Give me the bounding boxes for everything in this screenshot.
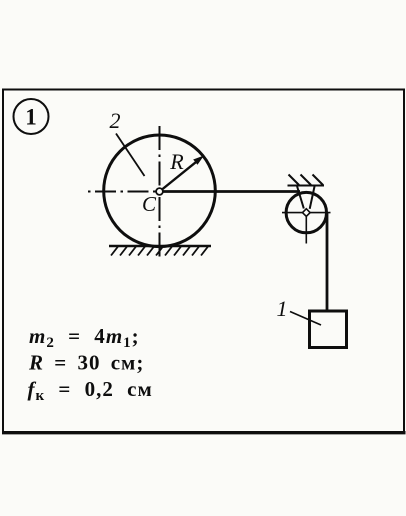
svg-text:fк = 0,2 см: fк = 0,2 см bbox=[28, 377, 153, 404]
svg-text:R: R bbox=[169, 149, 184, 174]
wheel (disk 2) bbox=[104, 135, 216, 247]
svg-text:1: 1 bbox=[277, 296, 288, 321]
ground line bbox=[109, 245, 211, 247]
load block 1 bbox=[310, 311, 347, 348]
svg-text:2: 2 bbox=[110, 108, 121, 133]
ground hatching bbox=[111, 247, 208, 256]
label 2 leader line bbox=[116, 134, 145, 177]
svg-text:C: C bbox=[142, 192, 157, 216]
pulley crosshair vertical bbox=[305, 214, 307, 244]
frame border bbox=[2, 90, 406, 433]
label 1 leader line bbox=[290, 312, 321, 326]
svg-text:R = 30 см;: R = 30 см; bbox=[28, 351, 144, 375]
pulley wheel bbox=[286, 192, 326, 232]
wheel center marker C bbox=[156, 188, 163, 195]
rope horizontal (wheel center to pulley) bbox=[160, 190, 301, 193]
pulley clevis legs bbox=[297, 186, 315, 209]
svg-text:m2 = 4m1;: m2 = 4m1; bbox=[29, 324, 140, 351]
rope vertical (pulley to load) bbox=[326, 213, 329, 312]
radius arrow R bbox=[160, 156, 205, 192]
svg-text:1: 1 bbox=[25, 105, 37, 130]
ceiling hatching bbox=[289, 175, 324, 186]
ceiling line bbox=[288, 185, 325, 187]
vertical centerline (dash-dot) bbox=[159, 126, 161, 258]
badge circle 1 bbox=[14, 99, 49, 134]
horizontal centerline (dash-dot) bbox=[88, 191, 160, 193]
pulley center diamond bbox=[302, 209, 310, 217]
pulley crosshair horizontal bbox=[282, 212, 331, 214]
